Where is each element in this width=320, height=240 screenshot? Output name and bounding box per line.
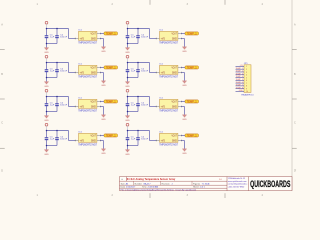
svg-text:C: C — [1, 122, 3, 125]
svg-text:3: 3 — [246, 72, 247, 74]
svg-text:1 of 1: 1 of 1 — [200, 187, 206, 189]
svg-text:TEMP_1: TEMP_1 — [236, 68, 243, 70]
svg-text:2: 2 — [246, 69, 247, 71]
svg-text:2:43:30 AM: 2:43:30 AM — [148, 186, 159, 189]
svg-text:7: 7 — [246, 83, 247, 85]
svg-text:4: 4 — [246, 75, 247, 77]
svg-text:Revision: Revision — [162, 183, 171, 185]
svg-text:www.quickboards.com: www.quickboards.com — [228, 180, 247, 183]
svg-text:5: 5 — [246, 77, 247, 79]
svg-text:1: 1 — [246, 66, 247, 68]
svg-text:Number: Number — [135, 182, 143, 185]
svg-text:9: 9 — [246, 88, 247, 90]
svg-text:HEADER 10: HEADER 10 — [241, 93, 254, 96]
svg-text:TEMP_7: TEMP_7 — [236, 85, 243, 87]
svg-text:QUICKBOARDS: QUICKBOARDS — [250, 178, 290, 189]
svg-text:TEMP_6: TEMP_6 — [236, 82, 243, 84]
svg-text:TEMP_2: TEMP_2 — [236, 71, 243, 73]
svg-text:TEMP_5: TEMP_5 — [236, 79, 243, 81]
svg-text:TEMP_8: TEMP_8 — [236, 87, 243, 89]
svg-text:Sheet: Sheet — [193, 186, 199, 189]
svg-text:D: D — [1, 170, 3, 173]
svg-text:6: 6 — [246, 80, 247, 82]
svg-text:File: C:\Users\qb\Documents\Te: File: C:\Users\qb\Documents\TempArray\Se… — [121, 188, 197, 191]
svg-text:TC 34db: TC 34db — [202, 183, 211, 185]
svg-text:C: C — [294, 122, 296, 125]
svg-text:TEMP_4: TEMP_4 — [236, 76, 243, 78]
svg-text:1234 Adelaide St. W: 1234 Adelaide St. W — [228, 177, 245, 180]
svg-text:TEMP_3: TEMP_3 — [236, 73, 243, 75]
svg-text:64 4LC Analog Temperature Sens: 64 4LC Analog Temperature Sensor Array — [127, 177, 176, 181]
svg-text:BA-017: BA-017 — [144, 182, 152, 185]
svg-text:contact@quickboards.c: contact@quickboards.c — [228, 183, 248, 186]
svg-text:Figures: Figures — [193, 182, 200, 185]
svg-text:+001 234 567 8900: +001 234 567 8900 — [228, 186, 244, 188]
svg-text:GND: GND — [239, 90, 244, 92]
svg-text:10: 10 — [246, 91, 248, 93]
svg-text:8: 8 — [246, 86, 247, 88]
